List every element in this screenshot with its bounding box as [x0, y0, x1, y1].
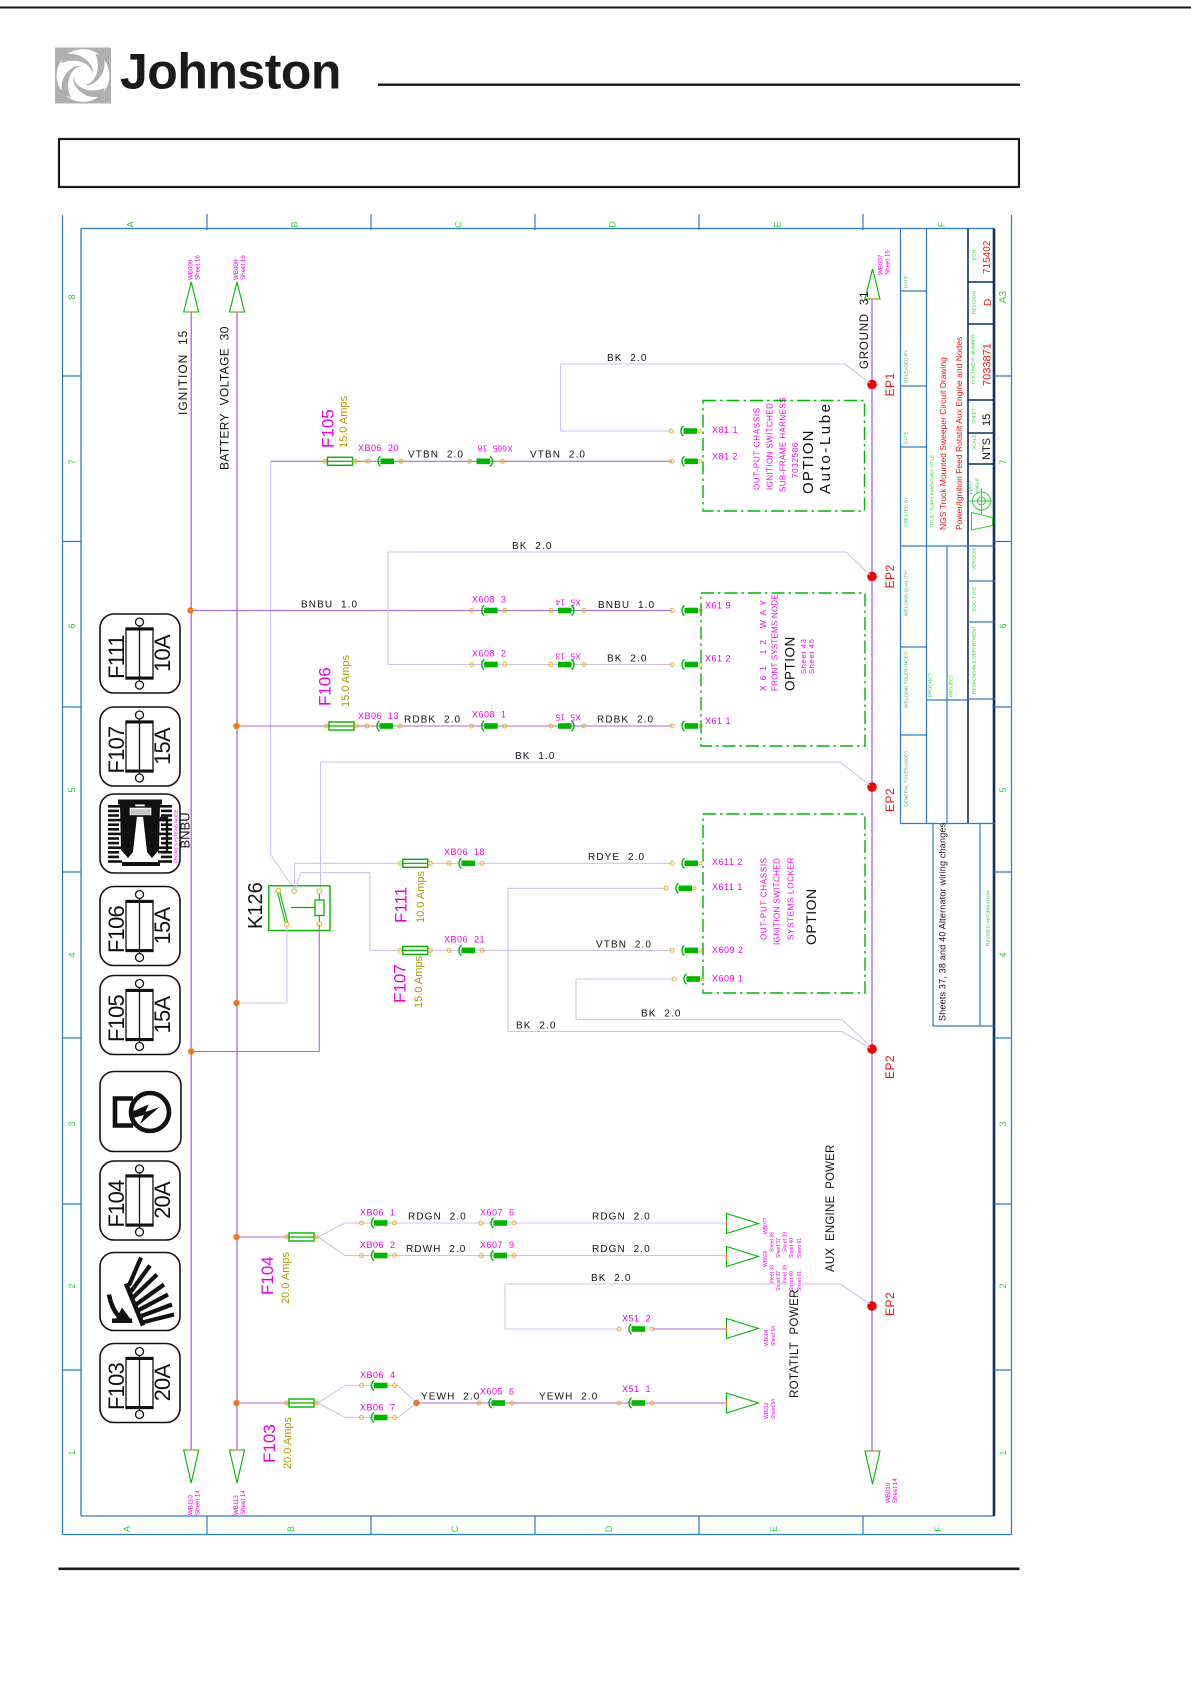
svg-text:RDBK 2.0: RDBK 2.0: [597, 715, 654, 726]
svg-text:BATTERY VOLTAGE 30: BATTERY VOLTAGE 30: [218, 326, 232, 470]
svg-text:5: 5: [67, 787, 77, 792]
svg-text:20A: 20A: [150, 1181, 175, 1219]
svg-text:DOCUMENT NUMBER: DOCUMENT NUMBER: [971, 334, 977, 384]
svg-text:SHEET: SHEET: [972, 408, 978, 424]
svg-text:F: F: [937, 221, 947, 227]
svg-text:8: 8: [67, 294, 77, 299]
svg-text:X81 2: X81 2: [712, 452, 738, 462]
svg-text:4: 4: [67, 952, 77, 957]
svg-text:XB06 20: XB06 20: [358, 443, 399, 453]
svg-text:GENERAL TOLERANCES: GENERAL TOLERANCES: [904, 751, 910, 807]
svg-text:VTBN 2.0: VTBN 2.0: [530, 450, 586, 461]
svg-text:BK 2.0: BK 2.0: [516, 1021, 557, 1032]
svg-text:WB009: WB009: [188, 259, 195, 280]
svg-text:EP2: EP2: [883, 1055, 897, 1079]
svg-text:NTS: NTS: [981, 438, 993, 460]
svg-text:X608 3: X608 3: [472, 595, 507, 605]
svg-text:X61 1: X61 1: [705, 716, 731, 726]
svg-text:CREATED BY: CREATED BY: [904, 496, 910, 527]
svg-text:3: 3: [998, 1121, 1008, 1126]
svg-text:E: E: [773, 221, 783, 227]
svg-text:RESPONSIBLE DEPARTMENT: RESPONSIBLE DEPARTMENT: [972, 626, 978, 694]
svg-text:15.0 Amps: 15.0 Amps: [340, 655, 352, 707]
svg-text:▒▒▒▒: ▒▒▒▒: [131, 809, 151, 817]
svg-text:FRONT SYSTEMS NODE: FRONT SYSTEMS NODE: [771, 594, 780, 691]
svg-text:DATE: DATE: [904, 432, 910, 444]
svg-text:IGNITION SWITCHED: IGNITION SWITCHED: [766, 403, 775, 490]
svg-text:X609 1: X609 1: [712, 974, 744, 984]
svg-text:4: 4: [998, 952, 1008, 957]
svg-text:X609 2: X609 2: [712, 945, 744, 955]
svg-text:WB008: WB008: [233, 259, 240, 280]
svg-text:K126: K126: [245, 882, 267, 929]
svg-text:2: 2: [67, 1283, 77, 1288]
svg-text:X51 2: X51 2: [622, 1314, 651, 1324]
svg-text:WB010: WB010: [885, 1482, 892, 1503]
svg-text:BK 2.0: BK 2.0: [607, 353, 648, 364]
svg-text:BK 2.0: BK 2.0: [591, 1273, 632, 1284]
svg-text:Power/Ignition Feed Rotatilt A: Power/Ignition Feed Rotatilt Aux Engine …: [954, 337, 964, 530]
svg-text:OPTION: OPTION: [803, 888, 819, 945]
svg-text:Sheet 61: Sheet 61: [797, 1271, 803, 1291]
svg-text:X5 13: X5 13: [555, 652, 581, 661]
svg-text:F103: F103: [260, 1424, 279, 1463]
svg-text:F106: F106: [104, 905, 129, 953]
svg-text:X607 6: X607 6: [480, 1208, 515, 1218]
svg-text:20.0 Amps: 20.0 Amps: [282, 1417, 294, 1469]
svg-text:ANGLE: ANGLE: [975, 478, 981, 494]
svg-text:NGS Truck Mounted Sweeper Circ: NGS Truck Mounted Sweeper Circuit Drawin…: [938, 357, 948, 530]
svg-text:Auto-Lube: Auto-Lube: [817, 401, 834, 494]
svg-text:EP2: EP2: [883, 788, 897, 812]
svg-text:Sheet 54: Sheet 54: [771, 1399, 777, 1419]
svg-text:F105: F105: [319, 409, 338, 448]
svg-text:VERSION: VERSION: [972, 548, 978, 570]
svg-text:Sheet 37: Sheet 37: [776, 1271, 782, 1291]
svg-text:XB06 7: XB06 7: [360, 1403, 396, 1413]
svg-text:3: 3: [67, 1121, 77, 1126]
svg-text:15: 15: [981, 414, 993, 426]
svg-text:15A: 15A: [150, 727, 175, 765]
svg-text:IGNITION SWITCHED: IGNITION SWITCHED: [773, 858, 782, 945]
svg-text:Sheet 36: Sheet 36: [770, 1232, 776, 1252]
svg-text:WB007: WB007: [878, 254, 885, 275]
svg-text:15.0 Amps: 15.0 Amps: [338, 396, 350, 448]
svg-text:EP2: EP2: [883, 564, 897, 588]
svg-text:WB076: WB076: [763, 1250, 769, 1267]
svg-text:Sheet 14: Sheet 14: [240, 1490, 247, 1515]
svg-text:Sheet 36: Sheet 36: [770, 1265, 776, 1285]
svg-text:7032586: 7032586: [791, 442, 800, 478]
svg-text:OUT-PUT CHASSIS: OUT-PUT CHASSIS: [753, 407, 762, 490]
svg-text:XB06 2: XB06 2: [360, 1240, 396, 1250]
svg-text:BK 1.0: BK 1.0: [515, 751, 556, 762]
svg-text:Sheet 40: Sheet 40: [789, 1271, 795, 1291]
svg-text:XB06 18: XB06 18: [444, 847, 485, 857]
svg-text:D: D: [983, 299, 994, 306]
svg-text:RELEASED BY: RELEASED BY: [904, 349, 910, 383]
svg-text:715402: 715402: [982, 240, 993, 274]
svg-text:15A: 15A: [150, 907, 175, 945]
svg-text:OPTION: OPTION: [800, 429, 817, 494]
svg-text:20.0 Amps: 20.0 Amps: [280, 1252, 292, 1304]
svg-text:X611 1: X611 1: [712, 882, 743, 892]
svg-text:X61 12 WAY: X61 12 WAY: [758, 595, 768, 691]
svg-text:X61 2: X61 2: [705, 654, 731, 664]
svg-text:DATE: DATE: [904, 276, 910, 288]
svg-text:15.0 Amps: 15.0 Amps: [413, 956, 425, 1008]
svg-text:X608 1: X608 1: [472, 710, 507, 720]
svg-text:Sheet 45: Sheet 45: [807, 638, 816, 674]
svg-text:F107: F107: [104, 726, 129, 774]
svg-text:F106: F106: [316, 667, 335, 706]
svg-text:F107: F107: [391, 964, 410, 1003]
svg-text:EP1: EP1: [883, 372, 897, 396]
svg-text:XB06 4: XB06 4: [360, 1370, 396, 1380]
svg-text:6: 6: [998, 623, 1008, 628]
svg-text:ROTATILT POWER: ROTATILT POWER: [789, 1289, 801, 1398]
svg-text:20A: 20A: [150, 1364, 175, 1402]
svg-text:WELDING TOLERANCES: WELDING TOLERANCES: [904, 652, 910, 708]
svg-text:WB113: WB113: [233, 1495, 240, 1515]
svg-text:Sheet 39: Sheet 39: [783, 1265, 789, 1285]
svg-text:Sheet 16: Sheet 16: [885, 250, 892, 275]
svg-text:FIRST: FIRST: [969, 480, 975, 494]
svg-text:X611 2: X611 2: [712, 857, 743, 867]
svg-text:F: F: [933, 1526, 943, 1532]
svg-text:Sheet 37: Sheet 37: [776, 1238, 782, 1258]
svg-text:VTBN 2.0: VTBN 2.0: [596, 940, 652, 951]
svg-text:BK 2.0: BK 2.0: [512, 541, 553, 552]
svg-text:A3: A3: [998, 290, 1009, 303]
svg-text:WB012: WB012: [764, 1402, 770, 1419]
svg-text:OPTION: OPTION: [783, 636, 798, 691]
svg-text:Sheet 54: Sheet 54: [771, 1326, 777, 1346]
svg-text:YEWH 2.0: YEWH 2.0: [421, 1392, 480, 1403]
svg-text:X51 1: X51 1: [622, 1384, 651, 1394]
svg-text:F104: F104: [258, 1256, 277, 1295]
svg-text:IGNITION 15: IGNITION 15: [176, 330, 190, 415]
svg-text:RDGN 2.0: RDGN 2.0: [408, 1212, 467, 1223]
svg-text:XB06 13: XB06 13: [358, 711, 399, 721]
svg-text:WELDING QUALITY*: WELDING QUALITY*: [904, 570, 910, 616]
svg-text:Sheet 40: Sheet 40: [789, 1238, 795, 1258]
svg-text:WB077: WB077: [763, 1217, 769, 1234]
svg-text:15A: 15A: [150, 996, 175, 1034]
svg-text:10.0 Amps: 10.0 Amps: [415, 871, 427, 923]
svg-text:7: 7: [67, 459, 77, 464]
svg-text:C: C: [450, 1525, 460, 1532]
svg-text:X61 9: X61 9: [705, 601, 731, 611]
svg-text:RDBK 2.0: RDBK 2.0: [404, 715, 461, 726]
svg-text:X605 18: X605 18: [477, 444, 512, 453]
svg-text:Sheet 16: Sheet 16: [240, 255, 247, 280]
svg-text:X607 9: X607 9: [480, 1240, 515, 1250]
svg-text:RDGN 2.0: RDGN 2.0: [592, 1244, 651, 1255]
svg-text:REVISION: REVISION: [972, 291, 978, 314]
svg-text:1: 1: [67, 1450, 77, 1455]
svg-text:Sheet 16: Sheet 16: [195, 255, 202, 280]
svg-text:F111: F111: [392, 887, 411, 923]
svg-text:RDWH 2.0: RDWH 2.0: [406, 1244, 466, 1255]
svg-text:RDGN 2.0: RDGN 2.0: [592, 1212, 651, 1223]
svg-text:BNBU 1.0: BNBU 1.0: [301, 600, 358, 611]
svg-text:WB110: WB110: [188, 1495, 195, 1515]
svg-text:SYSTEMS LOCKER: SYSTEMS LOCKER: [787, 857, 796, 940]
svg-text:X605 6: X605 6: [480, 1387, 515, 1397]
svg-text:X5 15: X5 15: [555, 713, 581, 722]
svg-text:6: 6: [67, 623, 77, 628]
svg-text:BK 2.0: BK 2.0: [641, 1009, 682, 1020]
svg-text:XB06 21: XB06 21: [444, 935, 485, 945]
svg-text:7: 7: [998, 459, 1008, 464]
svg-text:X608 2: X608 2: [472, 649, 507, 659]
svg-text:ECN: ECN: [972, 249, 978, 260]
svg-text:XB06 1: XB06 1: [360, 1208, 396, 1218]
svg-text:X81 1: X81 1: [712, 425, 738, 435]
svg-text:SUB-FRAME HARNESS: SUB-FRAME HARNESS: [779, 397, 788, 492]
svg-text:YEWH 2.0: YEWH 2.0: [539, 1392, 598, 1403]
svg-text:B: B: [286, 1526, 296, 1532]
svg-text:WB004: WB004: [764, 1329, 770, 1346]
svg-text:VTBN 2.0: VTBN 2.0: [408, 450, 464, 461]
svg-text:OUT-PUT CHASSIS: OUT-PUT CHASSIS: [760, 857, 769, 940]
svg-text:Sheet 14: Sheet 14: [195, 1490, 202, 1515]
svg-text:EP2: EP2: [883, 1292, 897, 1316]
svg-text:F104: F104: [104, 1180, 129, 1228]
svg-text:5: 5: [998, 787, 1008, 792]
svg-text:Johnston: Johnston: [120, 44, 341, 100]
svg-text:X5 14: X5 14: [555, 598, 581, 607]
svg-text:BNBU 1.0: BNBU 1.0: [598, 600, 655, 611]
svg-text:D: D: [604, 1525, 614, 1532]
svg-text:F103: F103: [104, 1362, 129, 1410]
svg-text:Sheet 39: Sheet 39: [783, 1232, 789, 1252]
svg-text:7033871: 7033871: [982, 343, 994, 386]
svg-text:RDYE 2.0: RDYE 2.0: [588, 852, 645, 863]
svg-text:BNBU: BNBU: [178, 812, 193, 848]
svg-text:Sheets 37, 38 and 40 Alternato: Sheets 37, 38 and 40 Alternator wiring c…: [938, 822, 948, 1021]
svg-text:BK 2.0: BK 2.0: [607, 654, 648, 665]
svg-text:B: B: [290, 221, 300, 227]
svg-text:AUX ENGINE POWER: AUX ENGINE POWER: [825, 1144, 837, 1272]
svg-text:A: A: [122, 1526, 132, 1532]
svg-text:C: C: [454, 221, 464, 228]
svg-text:E: E: [769, 1526, 779, 1532]
svg-text:F105: F105: [104, 994, 129, 1042]
svg-text:TITLE / SUPPLEMENTARY TITLE: TITLE / SUPPLEMENTARY TITLE: [930, 455, 936, 528]
svg-text:1: 1: [998, 1450, 1008, 1455]
svg-text:SCALE: SCALE: [972, 434, 978, 450]
svg-text:Sheet 61: Sheet 61: [797, 1238, 803, 1258]
svg-text:D: D: [608, 221, 618, 228]
svg-text:Sheet 14: Sheet 14: [892, 1478, 899, 1503]
svg-text:10A: 10A: [150, 634, 175, 672]
svg-text:PRODUCT: PRODUCT: [928, 673, 934, 697]
svg-text:REVISED INFORMATION: REVISED INFORMATION: [986, 890, 992, 946]
svg-text:DOC TYPE: DOC TYPE: [972, 587, 978, 611]
svg-text:PROJECT: PROJECT: [949, 675, 955, 697]
svg-text:2: 2: [998, 1283, 1008, 1288]
svg-text:GROUND 31: GROUND 31: [859, 291, 871, 369]
svg-text:A: A: [126, 221, 136, 227]
svg-text:F111: F111: [104, 635, 129, 679]
